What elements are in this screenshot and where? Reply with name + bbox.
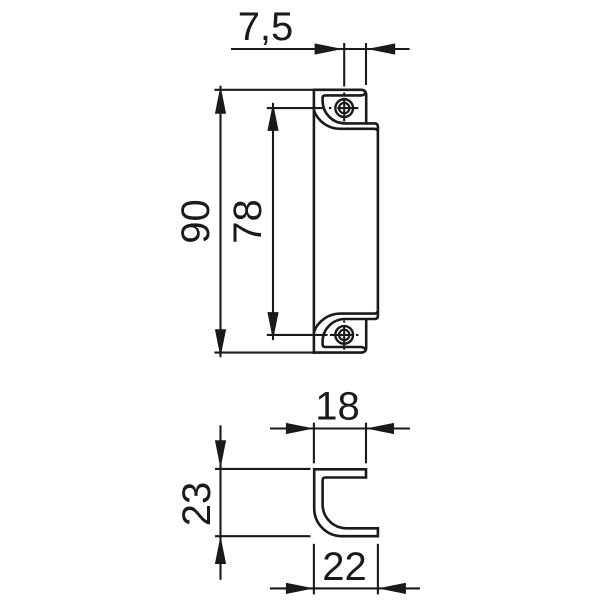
- front view: outer hook silhouette top (curve from left edge + lower ledge line): [314, 110, 378, 130]
- front view: plate left edge: [313, 89, 316, 354]
- dimension 23: dimension line with outside arrows: [219, 425, 221, 580]
- dimension 23: bottom extension line: [215, 535, 311, 537]
- top screw hole outer circle: [335, 99, 353, 117]
- svg-text:78: 78: [226, 199, 270, 244]
- dimension 90: bottom arrow: [215, 329, 226, 357]
- dimension 22: dimension line: [270, 587, 420, 589]
- dimension 90: dimension line with inside arrows: [219, 86, 221, 358]
- dimension 78: top extension line (screw centre): [267, 107, 323, 109]
- profile view: sheet cross-section outline: [314, 469, 378, 536]
- dimension 23: bottom arrow (pointing up): [215, 536, 226, 564]
- dimension 7,5: extension line at screw centre: [343, 43, 345, 87]
- dimension 90: bottom extension line: [214, 352, 312, 354]
- top screw centerline vertical: [343, 93, 345, 122]
- dimension 7,5: extension line at plate right edge: [365, 43, 367, 85]
- front view: inner sheet contour, fold lines, hook tip and right edge: [323, 93, 378, 349]
- dimension 78: bottom arrow: [267, 312, 278, 340]
- svg-text:7,5: 7,5: [238, 5, 294, 49]
- svg-text:90: 90: [174, 199, 218, 244]
- dimension 22: right arrow: [378, 583, 406, 594]
- dimension 78: dimension line with inside arrows: [272, 103, 274, 340]
- bottom screw hole inner circle: [339, 330, 349, 340]
- bottom screw centerline horizontal: [330, 334, 359, 336]
- front view: outer hook silhouette bottom (curve from left edge + upper ledge line): [314, 312, 378, 333]
- dimension 18: left arrow: [286, 423, 314, 434]
- bottom screw centerline vertical: [343, 321, 345, 350]
- top screw centerline horizontal: [329, 107, 358, 109]
- dimension 7,5: right arrow: [367, 43, 395, 54]
- front view: plate bottom edge with rounded bottom-right corner and lower tab right edge: [313, 319, 367, 353]
- dimension 90: top arrow: [215, 86, 226, 114]
- dimension 7,5: left arrow: [315, 43, 343, 54]
- dimension 18: right extension line: [365, 423, 367, 464]
- dimension 90: top extension line: [214, 89, 312, 91]
- dimension 22: left arrow: [286, 583, 314, 594]
- top screw hole inner circle: [339, 103, 349, 113]
- svg-text:23: 23: [175, 482, 219, 527]
- svg-text:18: 18: [315, 385, 360, 429]
- dimension 18: right arrow: [366, 423, 394, 434]
- bottom screw hole outer circle: [335, 326, 353, 344]
- dimension 23: top extension line: [215, 468, 311, 470]
- dimension 18: dimension line: [270, 427, 410, 429]
- svg-text:22: 22: [322, 545, 367, 589]
- front view: plate top edge with rounded top-right corner and tab right edge: [313, 90, 367, 124]
- dimension 78: top arrow: [267, 103, 278, 131]
- dimension 23: top arrow (pointing down): [215, 440, 226, 468]
- dimension 22: right extension line: [377, 544, 379, 595]
- dimension 7,5: dimension line: [231, 48, 410, 50]
- dimension 78: bottom extension line (screw centre): [267, 334, 328, 336]
- dimension 18: left extension line: [313, 423, 315, 464]
- dimension 22: left extension line: [313, 544, 315, 595]
